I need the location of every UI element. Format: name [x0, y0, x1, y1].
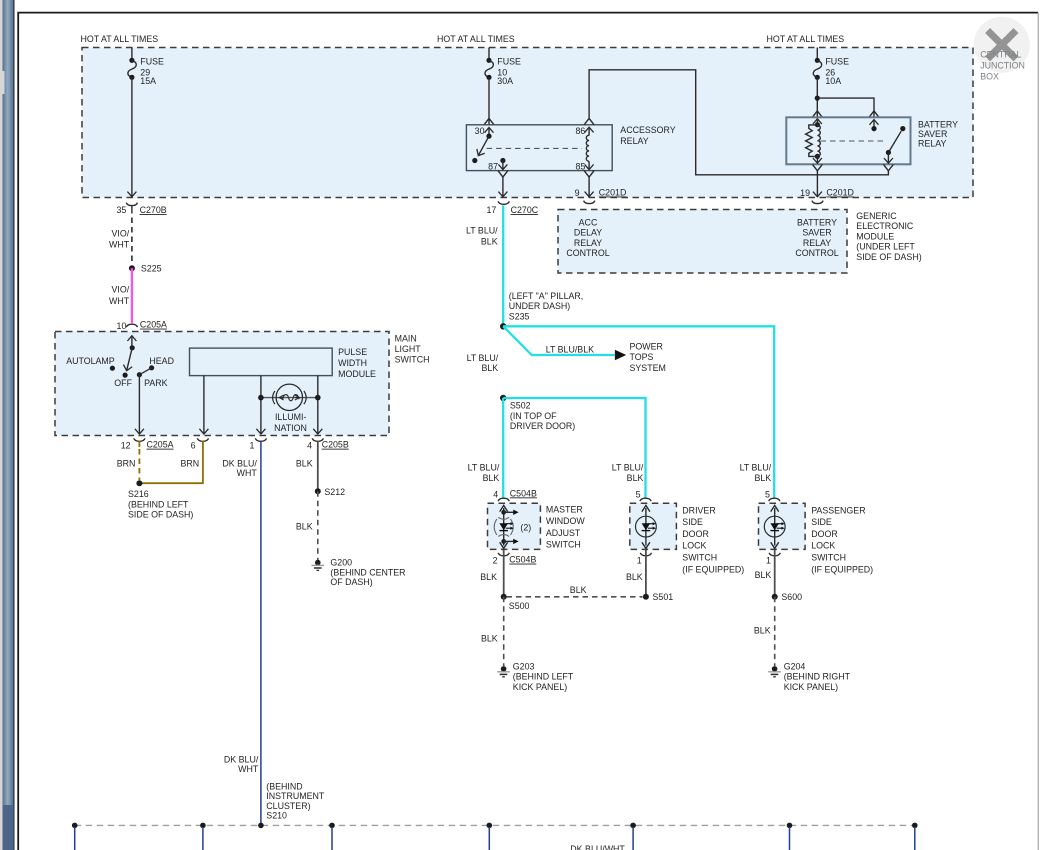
svg-text:ELECTRONIC: ELECTRONIC — [856, 221, 914, 231]
svg-text:DK BLU/: DK BLU/ — [224, 754, 259, 764]
svg-text:DOOR: DOOR — [811, 529, 838, 539]
fuse 10 30A — [485, 48, 521, 87]
svg-text:FUSE: FUSE — [140, 56, 164, 66]
switch common contact — [130, 345, 135, 350]
svg-text:UNDER DASH): UNDER DASH) — [509, 301, 570, 311]
bus node 6 — [787, 823, 793, 850]
svg-text:NATION: NATION — [274, 423, 307, 433]
connector pin 1 passenger — [766, 553, 780, 566]
connector pin 1 — [249, 438, 266, 450]
generic electronic module box — [558, 210, 847, 274]
svg-text:CONTROL: CONTROL — [795, 248, 838, 258]
svg-text:WHT: WHT — [109, 296, 130, 306]
window left gray strip — [0, 0, 15, 850]
label BATTERY SAVER RELAY — [918, 120, 958, 149]
accessory relay pin 87 output — [488, 158, 505, 172]
svg-text:(IF EQUIPPED): (IF EQUIPPED) — [811, 564, 873, 574]
splice S501 — [643, 592, 673, 602]
bottom splice bus (dashed) — [75, 824, 915, 826]
svg-text:87: 87 — [488, 161, 498, 171]
bus node 4 — [487, 823, 493, 850]
svg-text:PASSENGER: PASSENGER — [811, 505, 865, 515]
svg-text:SAVER: SAVER — [918, 129, 947, 139]
svg-text:WHT: WHT — [109, 240, 130, 250]
wire fuse29 to C270B — [131, 77, 133, 197]
svg-text:DOOR: DOOR — [682, 529, 709, 539]
svg-text:1: 1 — [766, 556, 771, 566]
driver side door lock switch box — [630, 503, 677, 549]
svg-text:1: 1 — [637, 556, 642, 566]
splice S235 — [500, 291, 583, 329]
svg-text:C270B: C270B — [140, 205, 167, 215]
svg-text:ACC: ACC — [579, 217, 598, 227]
connector C201D pin 19 cup — [812, 201, 823, 204]
svg-text:VIO/: VIO/ — [111, 229, 129, 239]
svg-text:PARK: PARK — [144, 378, 168, 388]
svg-text:85: 85 — [575, 161, 585, 171]
svg-text:SIDE OF DASH): SIDE OF DASH) — [128, 509, 193, 519]
label LT BLU/BLK driver branch — [612, 462, 644, 483]
fuse 29 15A — [128, 48, 164, 87]
headlight switch input arrow — [131, 336, 133, 348]
svg-text:FUSE: FUSE — [825, 56, 849, 66]
svg-text:(2): (2) — [520, 523, 531, 533]
svg-text:OFF: OFF — [114, 378, 132, 388]
bus node 3 — [329, 823, 335, 850]
svg-text:G200: G200 — [330, 558, 352, 568]
svg-text:KICK PANEL): KICK PANEL) — [784, 682, 838, 692]
svg-text:BLK: BLK — [627, 473, 644, 483]
splice S225 — [129, 264, 162, 274]
label GENERIC ELECTRONIC MODULE — [856, 211, 921, 262]
bus node S210 — [258, 823, 264, 829]
label PASSENGER SIDE DOOR LOCK SWITCH — [811, 505, 873, 574]
junction node fuse26 branch — [815, 96, 820, 101]
wire pin85 to C201D pin9 — [575, 177, 627, 198]
svg-text:(BEHIND LEFT: (BEHIND LEFT — [513, 672, 574, 682]
svg-text:S500: S500 — [509, 601, 530, 611]
passenger switch internal wire with arrows — [771, 505, 779, 548]
svg-text:SWITCH: SWITCH — [811, 553, 846, 563]
svg-text:DRIVER DOOR): DRIVER DOOR) — [510, 421, 575, 431]
svg-text:LT BLU/: LT BLU/ — [466, 226, 498, 236]
svg-text:SYSTEM: SYSTEM — [630, 363, 666, 373]
svg-text:WIDTH: WIDTH — [338, 358, 367, 368]
svg-text:LT BLU/BLK: LT BLU/BLK — [546, 345, 594, 355]
battery saver coil (zigzag + loops) — [806, 122, 821, 159]
svg-text:S216: S216 — [128, 489, 149, 499]
pulse width module box — [190, 347, 377, 379]
svg-text:SIDE: SIDE — [682, 517, 703, 527]
svg-text:(UNDER LEFT: (UNDER LEFT — [856, 242, 915, 252]
wire BLK driver to S501 — [626, 550, 646, 597]
contact AUTOLAMP — [66, 356, 115, 371]
svg-text:LT BLU/: LT BLU/ — [612, 462, 644, 472]
wire VIO/WHT solid S225 to C205A — [109, 268, 132, 323]
wire BLK dashed S500 to S501 — [507, 585, 643, 597]
wire fuse26 down — [816, 77, 818, 117]
wire pin87 to C270C — [502, 177, 504, 197]
contact OFF — [114, 373, 132, 389]
contact PARK with blade — [137, 368, 168, 388]
svg-text:30A: 30A — [497, 76, 513, 86]
svg-text:S600: S600 — [781, 592, 802, 602]
svg-text:BOX: BOX — [980, 72, 999, 82]
svg-text:MAIN: MAIN — [395, 334, 417, 344]
close button — [974, 17, 1030, 73]
svg-text:HOT AT ALL TIMES: HOT AT ALL TIMES — [767, 34, 845, 44]
bus node 7 — [912, 823, 918, 850]
driver switch internal wire with arrows — [642, 505, 650, 548]
svg-text:DELAY: DELAY — [574, 228, 602, 238]
bus node 5 — [630, 823, 636, 850]
label CENTRAL JUNCTION BOX — [980, 50, 1025, 82]
scrollbar blue bar — [0, 0, 1, 1]
fuse 26 10A — [813, 48, 849, 87]
svg-text:15A: 15A — [140, 76, 156, 86]
svg-text:BATTERY: BATTERY — [797, 217, 837, 227]
svg-text:MASTER: MASTER — [546, 504, 583, 514]
chevron pin 30 — [484, 118, 494, 124]
chevron below box switch output — [883, 164, 893, 171]
svg-text:RELAY: RELAY — [918, 139, 946, 149]
connector C205A pin 10 — [117, 320, 167, 331]
svg-text:JUNCTION: JUNCTION — [980, 61, 1025, 71]
svg-text:LOCK: LOCK — [811, 541, 835, 551]
svg-text:BLK: BLK — [481, 634, 498, 644]
wire fuse10 to accessory relay pin30 — [488, 77, 490, 125]
accessory relay coil pin 86 — [575, 126, 589, 161]
svg-text:BLK: BLK — [296, 459, 313, 469]
svg-text:LT BLU/: LT BLU/ — [740, 462, 772, 472]
connector C205A pin 12 — [121, 438, 174, 450]
svg-text:LT BLU/: LT BLU/ — [468, 462, 500, 472]
accessory relay armature blade — [472, 136, 489, 163]
wire LT BLU/BLK S235 to S502 — [467, 353, 499, 373]
svg-text:SWITCH: SWITCH — [546, 540, 581, 550]
svg-text:G203: G203 — [513, 661, 535, 671]
wire S235 branch to passenger switch — [503, 326, 774, 498]
svg-text:POWER: POWER — [630, 341, 663, 351]
scrollbar darker bottom segment — [3, 805, 14, 850]
svg-text:ADJUST: ADJUST — [546, 528, 581, 538]
svg-text:BLK: BLK — [626, 572, 643, 582]
svg-text:WINDOW: WINDOW — [546, 516, 585, 526]
main light switch box — [55, 332, 389, 436]
svg-text:BLK: BLK — [481, 237, 498, 247]
svg-text:DRIVER: DRIVER — [682, 505, 715, 515]
svg-text:HOT AT ALL TIMES: HOT AT ALL TIMES — [81, 34, 159, 44]
relay actuation dashed link — [487, 147, 582, 149]
svg-text:4: 4 — [307, 440, 312, 450]
svg-text:SIDE: SIDE — [811, 517, 832, 527]
master switch lower tap node — [501, 539, 518, 544]
svg-text:GENERIC: GENERIC — [856, 211, 897, 221]
bus node 2 — [200, 823, 206, 850]
svg-text:C201D: C201D — [826, 188, 854, 198]
wire PWM to pin 4 — [317, 376, 319, 434]
close button X — [988, 31, 1016, 59]
svg-text:5: 5 — [765, 489, 770, 499]
wire DK BLU/WHT pin1 to S210 — [222, 441, 261, 826]
svg-text:DK BLU/WHT: DK BLU/WHT — [570, 844, 625, 850]
svg-text:2: 2 — [493, 556, 498, 566]
driver switch LED — [636, 516, 657, 537]
connector C504B pin 4 — [493, 488, 537, 501]
chevron below box pin 85 — [584, 171, 594, 178]
connector C201D pin 9 cup — [584, 201, 595, 204]
svg-text:(BEHIND CENTER: (BEHIND CENTER — [330, 567, 405, 577]
chevron pin 86 above box — [584, 118, 594, 124]
svg-text:C504B: C504B — [510, 488, 537, 498]
svg-text:C201D: C201D — [599, 188, 627, 198]
svg-text:C504B: C504B — [509, 555, 536, 565]
connector pin 5 passenger — [765, 489, 780, 501]
svg-text:MODULE: MODULE — [856, 231, 894, 241]
master switch upper tap node — [501, 510, 518, 515]
contact HEAD — [149, 356, 174, 370]
svg-text:C205A: C205A — [140, 320, 167, 330]
svg-text:S501: S501 — [653, 592, 674, 602]
master window adjust switch box — [488, 503, 541, 549]
chevron below box pin 87 — [498, 171, 508, 178]
wire branch to switch pin — [817, 98, 874, 117]
svg-text:SWITCH: SWITCH — [682, 553, 717, 563]
connector C504B pin 2 — [493, 553, 537, 566]
svg-text:4: 4 — [493, 489, 498, 499]
svg-text:17: 17 — [486, 205, 496, 215]
wire S502 branch to driver switch — [503, 398, 645, 498]
label MASTER WINDOW ADJUST SWITCH — [546, 504, 585, 549]
connector C270B pin 35 — [116, 203, 166, 215]
svg-text:SWITCH: SWITCH — [395, 355, 430, 365]
wire BLK pin4 to S212 — [296, 441, 318, 492]
ground G204 — [768, 661, 850, 691]
ground G200 — [312, 558, 406, 587]
svg-text:AUTOLAMP: AUTOLAMP — [66, 356, 115, 366]
svg-text:FUSE: FUSE — [497, 56, 521, 66]
wire PARK to pin 12 — [138, 375, 140, 434]
splice S502 — [500, 395, 575, 431]
svg-text:12: 12 — [121, 440, 131, 450]
wire S235 to power tops system — [503, 326, 615, 355]
svg-text:TOPS: TOPS — [630, 352, 654, 362]
svg-text:5: 5 — [636, 489, 641, 499]
svg-text:ILLUMI-: ILLUMI- — [275, 412, 307, 422]
wire PWM to pin 1 — [260, 376, 262, 434]
svg-text:C205B: C205B — [322, 440, 349, 450]
svg-text:INSTRUMENT: INSTRUMENT — [266, 791, 325, 801]
ground G203 — [497, 661, 574, 691]
splice S210 label — [266, 782, 325, 821]
svg-text:WHT: WHT — [238, 764, 259, 774]
svg-text:S210: S210 — [266, 811, 287, 821]
master switch LED (2) — [494, 517, 531, 536]
svg-text:RELAY: RELAY — [574, 238, 602, 248]
svg-text:BLK: BLK — [754, 473, 771, 483]
passenger side door lock switch box — [759, 503, 806, 549]
svg-text:BLK: BLK — [755, 570, 772, 580]
wire PWM to pin 6 — [203, 376, 205, 434]
connector C270C pin 17 — [486, 201, 538, 215]
battery saver relay box — [786, 117, 910, 164]
svg-text:C205A: C205A — [147, 440, 174, 450]
svg-text:19: 19 — [800, 188, 810, 198]
svg-text:S225: S225 — [141, 264, 162, 274]
wire BLK dashed S212 to G200 — [296, 491, 318, 560]
wire BRN solid pin6 to S216 — [142, 441, 203, 484]
svg-text:(BEHIND RIGHT: (BEHIND RIGHT — [784, 672, 851, 682]
svg-text:BRN: BRN — [181, 459, 200, 469]
svg-text:G204: G204 — [784, 661, 806, 671]
svg-text:BLK: BLK — [483, 473, 500, 483]
svg-text:S235: S235 — [509, 311, 530, 321]
svg-text:ACCESSORY: ACCESSORY — [620, 125, 675, 135]
illumination lamp — [258, 384, 321, 433]
battery saver switch pin arrow — [871, 120, 876, 132]
label ACCESSORY RELAY — [620, 125, 675, 146]
master switch internal wire with arrows — [500, 505, 508, 548]
svg-text:SAVER: SAVER — [802, 228, 831, 238]
wire coil output to C201D pin19 — [800, 171, 854, 198]
svg-text:S212: S212 — [324, 487, 345, 497]
svg-text:WHT: WHT — [237, 468, 258, 478]
wire S502 to master switch — [468, 398, 504, 498]
scrollbar track notch upper — [0, 71, 5, 94]
splice S216 — [128, 480, 193, 519]
svg-text:RELAY: RELAY — [620, 136, 648, 146]
svg-text:LIGHT: LIGHT — [395, 344, 422, 354]
chevron below box coil output — [812, 164, 822, 171]
accessory relay pin 30 contact — [475, 126, 492, 139]
svg-text:10: 10 — [117, 321, 127, 331]
svg-text:HEAD: HEAD — [149, 356, 174, 366]
svg-text:(LEFT "A" PILLAR,: (LEFT "A" PILLAR, — [509, 291, 583, 301]
label POWER TOPS SYSTEM — [630, 341, 666, 373]
svg-text:BLK: BLK — [481, 363, 498, 373]
svg-text:BLK: BLK — [480, 572, 497, 582]
battery saver dashed link — [821, 140, 887, 142]
bus node 1 — [72, 823, 78, 850]
wire VIO/WHT dashed C270B to S225 — [109, 218, 132, 266]
connector pin 5 driver — [636, 489, 652, 501]
svg-text:BRN: BRN — [117, 459, 136, 469]
accessory relay box — [466, 125, 612, 171]
svg-text:30: 30 — [475, 126, 485, 136]
label BATTERY SAVER RELAY CONTROL — [795, 217, 838, 258]
label ACC DELAY RELAY CONTROL — [566, 217, 609, 258]
chevron battery saver coil pin — [812, 111, 822, 117]
svg-text:CONTROL: CONTROL — [566, 248, 609, 258]
passenger switch LED — [764, 516, 785, 537]
splice S212 — [315, 487, 345, 497]
wire BLK dashed S500 to G203 — [481, 597, 504, 666]
svg-text:RELAY: RELAY — [803, 238, 831, 248]
chevron battery saver switch pin — [869, 111, 879, 117]
accessory relay pin 85 — [575, 161, 589, 171]
svg-text:KICK PANEL): KICK PANEL) — [513, 682, 567, 692]
svg-text:(IN TOP OF: (IN TOP OF — [510, 411, 557, 421]
connector pin 6 — [191, 438, 209, 450]
svg-text:1: 1 — [249, 440, 254, 450]
svg-text:10A: 10A — [825, 76, 841, 86]
connector C205B pin 4 — [307, 438, 349, 450]
svg-text:86: 86 — [575, 126, 585, 136]
svg-text:CLUSTER): CLUSTER) — [266, 801, 310, 811]
svg-text:(IF EQUIPPED): (IF EQUIPPED) — [682, 564, 744, 574]
wire BLK passenger to S600 — [755, 550, 775, 597]
svg-text:CENTRAL: CENTRAL — [980, 50, 1021, 60]
svg-text:BLK: BLK — [296, 521, 313, 531]
wire LT BLU/BLK C270C to S235 — [466, 206, 503, 327]
svg-text:9: 9 — [575, 188, 580, 198]
battery saver coil output arrow — [816, 156, 818, 163]
svg-text:PULSE: PULSE — [338, 347, 367, 357]
svg-text:C270C: C270C — [511, 205, 539, 215]
wire BLK master to S500 — [480, 550, 503, 597]
svg-text:S502: S502 — [510, 401, 531, 411]
svg-text:VIO/: VIO/ — [111, 285, 129, 295]
splice S500 — [501, 594, 530, 611]
svg-text:BLK: BLK — [754, 626, 771, 636]
svg-text:LT BLU/: LT BLU/ — [467, 353, 499, 363]
connector pin 1 driver — [637, 553, 652, 566]
switch blade to OFF — [127, 348, 133, 371]
battery saver coil input arrow — [816, 119, 818, 124]
svg-text:(BEHIND: (BEHIND — [266, 782, 302, 792]
svg-text:BLK: BLK — [570, 585, 587, 595]
svg-text:BATTERY: BATTERY — [918, 120, 958, 130]
arrow to power tops system — [615, 350, 626, 361]
svg-text:35: 35 — [116, 205, 126, 215]
svg-text:HOT AT ALL TIMES: HOT AT ALL TIMES — [437, 34, 515, 44]
svg-text:6: 6 — [191, 440, 196, 450]
wire acc relay coil to battery saver switch — [589, 70, 888, 175]
label MAIN LIGHT SWITCH — [395, 334, 430, 365]
wire BLK dashed S600 to G204 — [754, 597, 775, 666]
label DRIVER SIDE DOOR LOCK SWITCH — [682, 505, 744, 574]
splice S600 — [772, 592, 802, 602]
central junction box (dashed) — [82, 48, 973, 198]
svg-text:(BEHIND LEFT: (BEHIND LEFT — [128, 499, 189, 509]
wire BRN dashed pin12 to S216 — [117, 441, 140, 481]
battery saver switch blade — [886, 126, 906, 163]
svg-text:SIDE OF DASH): SIDE OF DASH) — [856, 252, 921, 262]
label LT BLU/BLK passenger branch — [740, 462, 772, 483]
svg-text:MODULE: MODULE — [338, 369, 376, 379]
svg-text:LOCK: LOCK — [682, 541, 706, 551]
svg-text:OF DASH): OF DASH) — [330, 577, 372, 587]
